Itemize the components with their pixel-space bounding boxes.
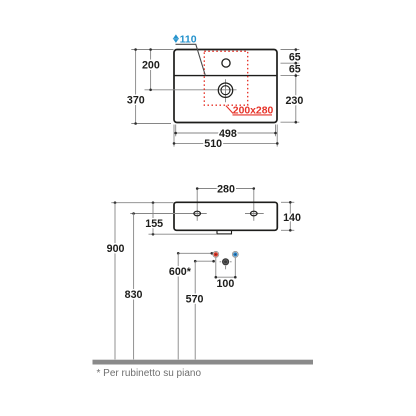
red dashed tap area rectangle bbox=[204, 51, 247, 105]
extension lines below top view bbox=[175, 125, 177, 137]
svg-text:140: 140 bbox=[283, 212, 301, 224]
svg-text:230: 230 bbox=[285, 95, 303, 107]
svg-text:900: 900 bbox=[107, 243, 125, 255]
svg-text:570: 570 bbox=[186, 294, 204, 306]
extension line basin top to left bbox=[111, 202, 173, 204]
fixing hole left bbox=[194, 211, 201, 216]
svg-text:600*: 600* bbox=[169, 266, 192, 278]
svg-text:65: 65 bbox=[289, 52, 301, 64]
hot water valve (red) bbox=[213, 251, 219, 257]
dim line 600* bbox=[177, 253, 179, 359]
leader for faucet hole callout bbox=[176, 44, 206, 75]
dim line 498 bbox=[176, 132, 276, 134]
dim line 65/65/230 bbox=[295, 50, 297, 123]
drain centerline horizontal bbox=[145, 89, 237, 91]
drain outer circle bbox=[218, 83, 232, 97]
dim line 370 bbox=[135, 50, 137, 124]
faucet hole bbox=[222, 59, 230, 67]
basin front outline bbox=[174, 202, 277, 230]
extension lines right side of top view bbox=[281, 49, 300, 51]
extension line blue valve down bbox=[234, 258, 236, 277]
basin outline (top view) bbox=[174, 50, 277, 123]
svg-text:200: 200 bbox=[142, 60, 160, 72]
svg-text:370: 370 bbox=[127, 94, 145, 106]
extension line drain tab bottom bbox=[149, 233, 218, 235]
570 extension line bbox=[195, 260, 213, 262]
svg-text:830: 830 bbox=[125, 289, 143, 301]
dim line 155 bbox=[152, 203, 154, 235]
floor bar bbox=[93, 360, 314, 365]
600* extension line bbox=[178, 252, 212, 254]
small ticks around waste outlet bbox=[220, 261, 222, 263]
fixing hole right bbox=[251, 211, 258, 216]
extension line top-left bbox=[131, 49, 173, 51]
svg-text:65: 65 bbox=[289, 63, 301, 75]
svg-text:510: 510 bbox=[204, 138, 222, 150]
dim line 830 bbox=[133, 214, 135, 360]
extension line bottom-left of top view bbox=[131, 123, 171, 125]
svg-text:* Per rubinetto su piano: * Per rubinetto su piano bbox=[97, 368, 202, 379]
drain tab below front view bbox=[217, 230, 232, 234]
dim line 900 bbox=[114, 203, 116, 360]
terminator dot between 65 labels bbox=[295, 62, 298, 65]
dim line 510 bbox=[174, 142, 277, 144]
blue diameter symbol bbox=[173, 34, 179, 43]
dim line 100 bbox=[216, 276, 236, 278]
fixing hole centerlines bbox=[188, 213, 207, 215]
waste outlet (dark disc) bbox=[222, 258, 229, 265]
svg-text:100: 100 bbox=[216, 278, 234, 290]
red underline bbox=[233, 114, 273, 116]
svg-text:155: 155 bbox=[145, 218, 163, 230]
inner rim line bbox=[175, 75, 277, 77]
drain centerline vertical bbox=[225, 79, 227, 102]
dim line 200 bbox=[150, 50, 152, 90]
extension line red valve down bbox=[215, 258, 217, 277]
dim line 570 bbox=[194, 261, 196, 359]
extension line fixing holes to left bbox=[130, 213, 188, 215]
svg-text:280: 280 bbox=[217, 183, 235, 195]
cold water valve (blue) bbox=[232, 251, 238, 257]
svg-text:110: 110 bbox=[180, 33, 197, 45]
dim line 140 bbox=[289, 202, 291, 230]
red leader line bbox=[226, 106, 233, 114]
svg-text:200x280: 200x280 bbox=[233, 106, 274, 117]
drain inner circle bbox=[221, 86, 230, 95]
dim line 280 bbox=[197, 188, 254, 190]
extension lines for 140 bbox=[281, 201, 294, 203]
